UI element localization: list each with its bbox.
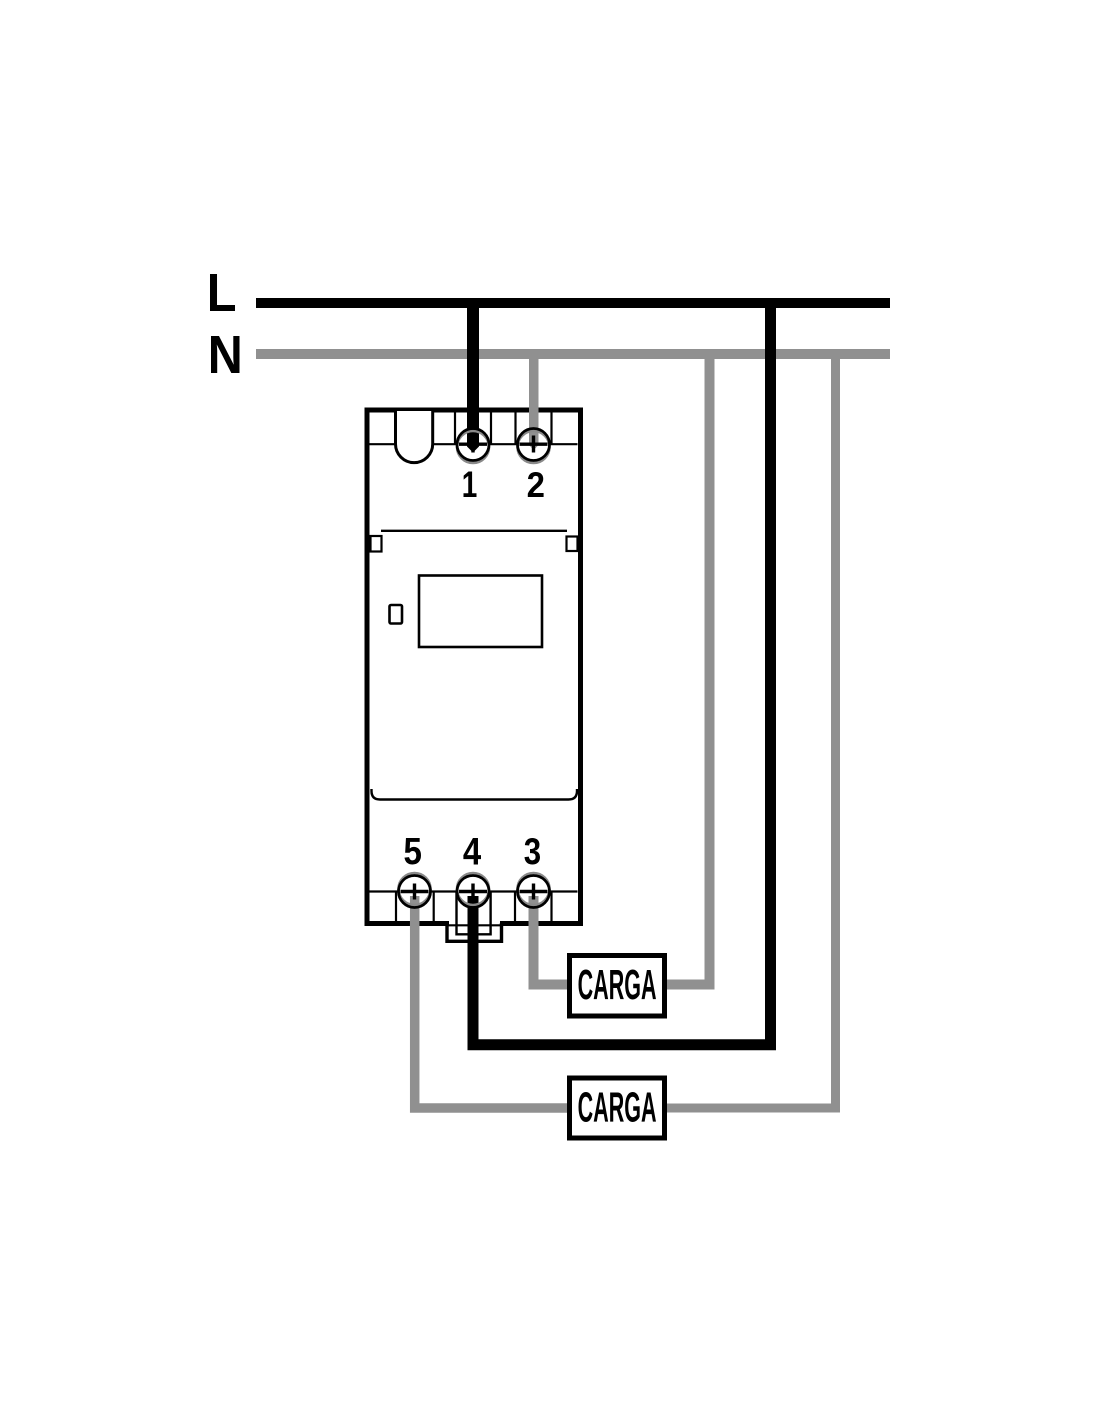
bottom terminal divider lines — [396, 892, 552, 922]
LCD display window — [419, 576, 542, 648]
terminal 4 screw rim — [457, 873, 489, 908]
terminal 1 screw face — [456, 428, 490, 462]
CARGA load box 1 — [570, 956, 665, 1017]
CARGA load box 1 label — [579, 970, 656, 1000]
device body (timer outline) — [367, 410, 581, 924]
wire from CARGA 1 right side up to N line — [666, 352, 710, 985]
front panel bottom edge line — [372, 789, 578, 800]
screw cross terminal 5 — [401, 884, 429, 900]
bottom terminal shelf line — [370, 890, 578, 892]
wire from terminal 4 down, right and up to L line — [473, 300, 771, 1045]
front panel top edge line — [381, 530, 567, 532]
small button — [390, 605, 403, 624]
terminal 2 screw rim — [518, 429, 550, 464]
terminal 3 screw rim — [518, 873, 550, 908]
pin number 3 — [524, 838, 540, 865]
pin number 1 — [463, 471, 476, 497]
front panel left clip square — [371, 536, 382, 552]
terminal 1 screw rim — [457, 429, 489, 464]
screw cross terminal 3 — [520, 884, 548, 900]
CARGA load box 2 — [570, 1078, 665, 1138]
pin number 4 — [463, 838, 481, 865]
wire N supply line — [256, 349, 890, 359]
terminal 5 screw face — [398, 875, 432, 909]
screw cross terminal 4 — [459, 884, 487, 900]
pin number 5 — [404, 838, 420, 864]
terminal 5 screw rim — [399, 873, 431, 908]
top terminal divider lines — [455, 412, 552, 444]
top terminal shelf line left of notch — [370, 443, 396, 445]
wire from terminal 3 down and right to CARGA 1 — [534, 896, 569, 985]
top terminal shelf line right of notch — [433, 443, 578, 445]
DIN rail clip inner rectangle — [457, 892, 491, 934]
front panel right clip square — [567, 537, 578, 552]
screw cross terminal 1 — [459, 436, 487, 453]
label L (line) — [210, 274, 235, 311]
top U-notch slot — [396, 411, 433, 463]
screw cross terminal 2 — [520, 436, 548, 453]
DIN rail clip outer tab — [447, 923, 502, 941]
wire from N line down to terminal 2 — [529, 351, 539, 450]
wire from terminal 5 down and right to CARGA 2 — [415, 896, 568, 1108]
CARGA load box 2 label — [579, 1092, 656, 1122]
label N (neutral) — [211, 336, 239, 373]
wire L supply line — [256, 298, 890, 308]
pin number 2 — [528, 472, 544, 497]
DIN rail clip mouth (border opening) — [446, 920, 502, 929]
terminal 3 screw face — [517, 875, 551, 909]
terminal 4 screw face — [456, 875, 490, 909]
wire from CARGA 2 right side up to N line — [666, 352, 836, 1108]
terminal 2 screw face — [517, 428, 551, 462]
wire from L line down to terminal 1 — [467, 300, 479, 453]
